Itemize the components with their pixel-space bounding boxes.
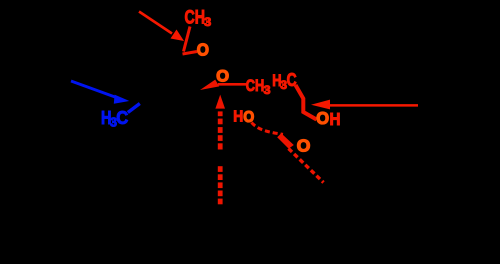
wedge bond C=O (red solid wedge) <box>200 80 219 90</box>
svg-text:H: H <box>233 109 243 126</box>
arrow A1 (red solid arrow top-left pointing to acetyl group) <box>139 12 184 42</box>
label H3C (blue methyl) <box>101 107 128 129</box>
bond CH3-C (acetyl) <box>184 27 191 52</box>
label CH3 (ester methyl, red) <box>246 77 271 97</box>
svg-text:O: O <box>197 39 209 59</box>
arrow A2 (red horizontal arrow from right pointing left) <box>311 100 418 110</box>
svg-text:3: 3 <box>204 15 212 29</box>
svg-text:CH: CH <box>185 7 206 29</box>
svg-text:3: 3 <box>264 85 271 97</box>
bond H3C-C (blue) <box>128 104 140 113</box>
dashed bond (red diagonal hashed line below O) <box>289 149 324 183</box>
svg-text:O: O <box>297 136 311 156</box>
arrow A5 (blue solid arrow pointing to H3C) <box>71 81 129 104</box>
svg-text:CH: CH <box>246 77 264 95</box>
svg-text:O: O <box>316 108 329 128</box>
arrowhead of A4 (thick diagonal stroke pointing down-right) <box>277 133 294 148</box>
bond H3C-C-C-OH (red polyline) <box>296 85 317 120</box>
arrow A3 (red vertical dashed arrow pointing up at ester O) <box>215 95 225 205</box>
svg-text:C: C <box>116 107 128 128</box>
label HO (red hydroxyl, lactone area) <box>233 109 254 126</box>
label H3C (red methyl on quaternary carbon) <box>272 70 296 92</box>
arrow A4 (red dashed curved arrow from HO toward O) <box>252 123 284 135</box>
bond C-O (acetyl) <box>183 52 198 55</box>
svg-text:O: O <box>216 66 229 85</box>
label OH (red hydroxyl) <box>316 108 340 129</box>
svg-text:H: H <box>330 109 341 129</box>
bond O-CH3 (ester, horizontal) <box>218 83 246 86</box>
label CH3 (acetyl methyl, red) <box>185 7 212 30</box>
